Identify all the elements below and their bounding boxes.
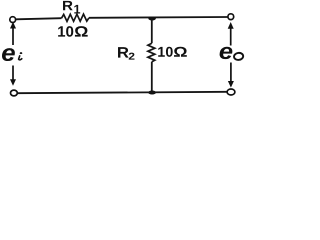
label eo "e" [220, 47, 233, 59]
value ohm sign of R2 [174, 47, 187, 57]
terminal bottom-right [227, 89, 235, 95]
arrow up (ei plus) [10, 22, 16, 45]
value ohm sign of R1 [75, 26, 88, 36]
terminal top-left [10, 17, 16, 23]
resistor R1 zigzag [62, 14, 90, 21]
terminal top-right [228, 14, 234, 20]
label R1 subscript 1 [74, 5, 80, 14]
wire R2 top lead [151, 18, 153, 43]
label ei subscript i [19, 52, 23, 60]
label R1 "R" [63, 1, 73, 10]
wire top-right segment [89, 16, 228, 19]
value 10 of R2 [158, 47, 173, 57]
wire top-left segment [16, 18, 62, 19]
terminal bottom-left [11, 90, 18, 96]
resistor R2 zigzag [148, 43, 155, 62]
node junction bottom of R2 [148, 91, 156, 95]
wire R2 bottom lead [151, 62, 153, 93]
arrow down (eo minus) [228, 63, 234, 88]
label ei "e" [2, 48, 15, 61]
arrow up (eo plus) [228, 22, 234, 46]
label R2 "R" [118, 47, 129, 57]
node junction top of R2 [148, 17, 156, 21]
label R2 subscript 2 [129, 53, 135, 60]
value 10 of R1 [58, 26, 73, 37]
label eo subscript o [234, 52, 244, 60]
wire bottom [17, 92, 226, 93]
arrow down (ei minus) [10, 66, 16, 86]
